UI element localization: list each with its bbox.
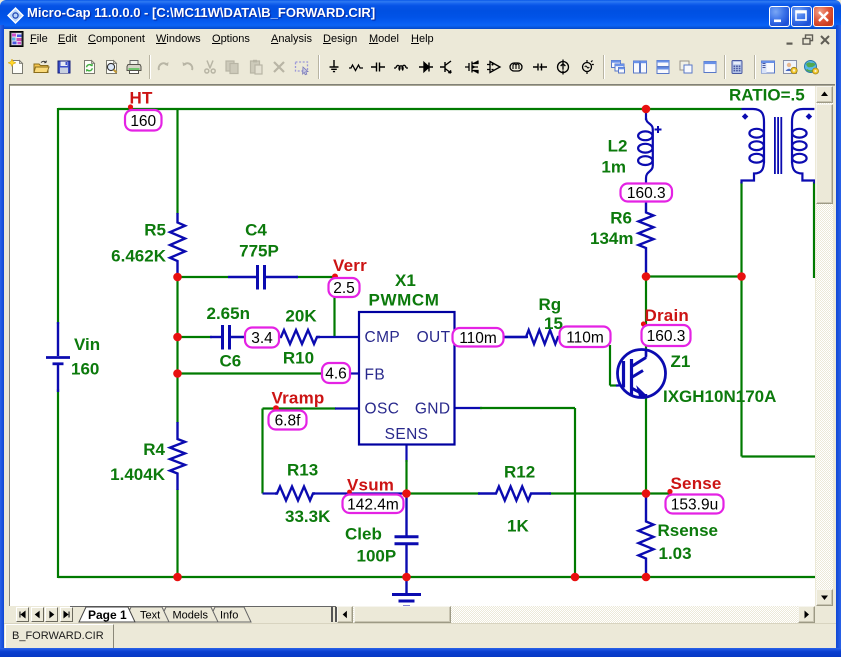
svg-text:160: 160 [71,360,99,379]
svg-text:33.3K: 33.3K [285,507,331,526]
svg-text:Page 1: Page 1 [88,608,127,622]
junction drain row right [737,272,746,281]
wire OSC vertical down [261,409,263,494]
resistor R6 [639,201,654,277]
menu bar [4,29,836,50]
node HT value box [125,110,162,131]
wire left rail upper [57,108,59,324]
inductor L2 [646,118,653,130]
svg-text:153.9u: 153.9u [671,497,718,514]
junction bottom rail GND wire [571,573,580,582]
svg-text:C4: C4 [245,221,267,240]
node L2 value box [621,184,673,202]
wire SENS to Vsum junction [405,460,407,494]
svg-text:Rsense: Rsense [658,521,718,540]
resistor Rg [503,330,562,344]
wire HT top rail [58,108,742,110]
svg-text:4.6: 4.6 [325,366,347,383]
wire GND pin stub [455,407,483,409]
transformer secondary polarity dot [806,113,813,120]
wire mid rail below R4 [176,489,178,577]
wire HT to L2 lead [645,109,647,120]
battery Vin [57,322,59,356]
svg-text:R12: R12 [504,463,535,482]
svg-text:1.03: 1.03 [659,544,692,563]
junction bottom rail R4 [173,573,182,582]
svg-text:Models: Models [173,610,209,622]
resistor Rsense [639,495,654,577]
junction FB row [173,369,182,378]
node OUT value box [453,328,504,347]
wire drain horizontal to primary [646,275,742,277]
wire gate horizontal [610,384,618,386]
transformer primary polarity dot [742,113,749,120]
wire primary bottom vertical [740,182,742,457]
svg-text:Cleb: Cleb [345,525,382,544]
svg-text:Vsum: Vsum [347,476,394,495]
wire OUT box to Rg [503,336,528,338]
status row [4,623,836,649]
svg-text:Text: Text [140,610,160,622]
junction Sense [642,489,651,498]
svg-text:100P: 100P [357,547,397,566]
transformer primary winding [742,109,765,131]
wire secondary bottom vertical [813,182,815,278]
toolbar [4,50,836,84]
svg-text:OUT: OUT [417,329,451,346]
resistor R5 [170,213,185,277]
resistor R4 [170,422,185,490]
svg-text:1K: 1K [507,517,529,536]
svg-text:2.65n: 2.65n [207,304,250,323]
wire C4 branch left [178,276,229,278]
node Rg value box [560,327,611,348]
wire R13 left lead [263,492,278,494]
svg-text:RATIO=.5: RATIO=.5 [729,86,805,105]
wire gate navy stub [616,384,622,386]
capacitor Cleb [405,494,407,536]
svg-text:160.3: 160.3 [627,185,666,202]
svg-text:R10: R10 [283,349,314,368]
svg-text:R5: R5 [144,221,166,240]
svg-text:2.5: 2.5 [333,280,355,297]
MDI child buttons [784,33,798,47]
resistor R10 [277,330,320,344]
svg-text:R6: R6 [610,209,632,228]
svg-text:775P: 775P [239,242,279,261]
svg-text:R4: R4 [143,440,165,459]
junction bottom rail Cleb [402,573,411,582]
junction drain row left [642,272,651,281]
node Drain value box [642,325,691,346]
wire left rail lower [57,389,59,578]
junction Vsum [402,489,411,498]
node Vsum value box [343,495,404,514]
bottom tab row [4,606,836,623]
wire R12 to Sense junction [549,492,646,494]
svg-text:6.8f: 6.8f [275,413,302,430]
node Vramp value box [269,411,307,430]
svg-text:134m: 134m [590,229,633,248]
svg-text:Drain: Drain [645,306,689,325]
resistor R13 [275,487,315,501]
junction C6 row [173,333,182,342]
wire Rg to 110m box [558,336,562,338]
right scrollbar [816,86,833,606]
svg-text:R13: R13 [287,461,318,480]
wire drain node vertical [645,277,647,350]
wire bottom right horizontal [742,455,816,457]
transformer secondary winding [792,109,814,131]
node FB value box [322,363,350,383]
wire Z1 emitter down to Sense [645,396,647,494]
svg-text:X1: X1 [395,271,416,290]
svg-text:FB: FB [365,367,386,384]
wire FB box to pin [348,372,359,374]
svg-text:L2: L2 [608,137,628,156]
transformer core [774,117,776,174]
title bar [0,0,841,29]
svg-text:OSC: OSC [365,401,400,418]
node Verr value box [329,278,360,297]
svg-text:160: 160 [130,113,156,130]
svg-text:GND: GND [415,401,451,418]
svg-text:142.4m: 142.4m [347,496,399,513]
transistor Z1 IGBT [618,350,666,398]
svg-text:Rg: Rg [539,295,562,314]
svg-text:20K: 20K [285,307,317,326]
svg-text:3.4: 3.4 [251,330,273,347]
svg-text:IXGH10N170A: IXGH10N170A [663,387,776,406]
svg-text:CMP: CMP [365,329,401,346]
wire GND vertical to bottom rail [574,408,576,577]
node Sense value box [666,495,724,514]
wire SENS pin vertical [405,444,407,462]
junction bottom rail Rsense [642,573,651,582]
wire GND pin to vertical [480,407,575,409]
svg-text:C6: C6 [220,352,242,371]
svg-text:Vramp: Vramp [272,389,325,408]
svg-text:Info: Info [220,610,238,622]
wire mid rail x=177.5 upper [176,108,178,214]
wire OSC stub navy [335,407,359,409]
svg-text:110m: 110m [566,329,604,346]
wire Verr vertical to R10 [333,277,335,338]
wire FB row [178,372,324,374]
wire OSC row [263,407,337,409]
junction at HT rail and L2 [642,105,651,114]
wire Sense stub [646,492,670,494]
wire C4 to Verr node [296,276,335,278]
svg-text:Z1: Z1 [671,352,691,371]
svg-text:110m: 110m [459,330,497,347]
capacitor C4 [228,276,256,278]
svg-text:SENS: SENS [385,426,429,443]
wire C6 branch [178,336,213,338]
wire mid rail between R5 and R4 [176,277,178,423]
junction R5 C4 [173,273,182,282]
svg-text:Vin: Vin [74,335,100,354]
wire bottom ground rail [58,576,815,578]
op-amp U1 macro box X1 PWMCM [359,312,455,445]
svg-text:1m: 1m [601,158,626,177]
svg-text:1.404K: 1.404K [110,465,166,484]
wire R13 to Vsum junction [313,492,407,494]
capacitor C6 [210,336,221,338]
window borders [0,25,4,652]
wire Vsum to R12 [407,492,481,494]
svg-text:Verr: Verr [333,256,367,275]
svg-text:HT: HT [130,89,153,108]
svg-text:PWMCM: PWMCM [369,291,440,310]
node C6 value box [245,328,279,348]
wire gate vertical drop [609,345,611,386]
resistor R12 [478,487,551,501]
svg-text:6.462K: 6.462K [111,247,167,266]
wire R10 to CMP pin [317,336,359,338]
svg-text:Sense: Sense [671,474,722,493]
svg-text:160.3: 160.3 [647,328,686,345]
ground [405,577,407,593]
